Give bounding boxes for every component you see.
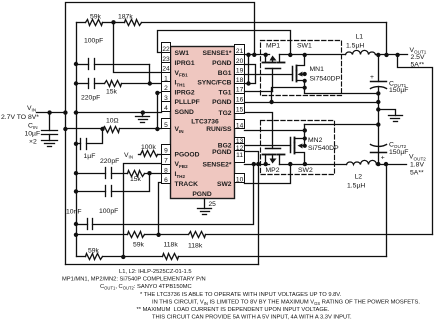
svg-text:1: 1: [164, 75, 168, 82]
resistor R 59k top: [77, 20, 114, 26]
wire VOUT1 feedback up: [386, 23, 388, 55]
svg-text:19: 19: [236, 68, 244, 75]
svg-text:SGND: SGND: [175, 109, 194, 116]
svg-text:PGND: PGND: [212, 99, 231, 106]
capacitor C 220pF ITH2: [74, 168, 112, 179]
svg-text:1.8V: 1.8V: [410, 162, 424, 169]
svg-text:15: 15: [236, 106, 244, 113]
svg-text:15k: 15k: [130, 176, 142, 183]
resistor R 118k track divider row1: [159, 232, 433, 238]
svg-text:10Ω: 10Ω: [106, 118, 119, 125]
wire PGND pin12 drop: [245, 152, 259, 265]
svg-text:IPRG1: IPRG1: [175, 60, 195, 67]
svg-text:100pF: 100pF: [84, 38, 103, 45]
svg-text:PGOOD: PGOOD: [175, 151, 200, 158]
svg-text:21: 21: [236, 48, 244, 55]
svg-text:10µF: 10µF: [25, 130, 41, 137]
svg-text:SYNC/FCB: SYNC/FCB: [197, 80, 231, 87]
resistor R 187k top: [114, 20, 387, 26]
svg-text:PLLLPF: PLLLPF: [175, 99, 200, 106]
wire MN2 source to COUT column: [305, 124, 379, 126]
transistor Q MP1: [263, 55, 285, 92]
wire MN1 source to COUT column: [305, 88, 379, 94]
svg-text:MN2: MN2: [308, 137, 323, 144]
svg-text:59k: 59k: [88, 247, 100, 254]
svg-text:150µF: 150µF: [389, 149, 408, 156]
svg-text:2.7V TO 8V*: 2.7V TO 8V*: [1, 114, 39, 121]
svg-text:L2: L2: [355, 174, 363, 181]
svg-text:25: 25: [209, 201, 217, 208]
text IC left pin names: [175, 50, 200, 188]
svg-text:PGND: PGND: [192, 191, 211, 198]
node ITH2 junction: [147, 171, 151, 175]
svg-text:2: 2: [164, 85, 168, 92]
resistor R 59k track divider row1: [74, 232, 159, 238]
node COUT2 top junction: [376, 122, 380, 126]
transistor Q MP2: [263, 149, 285, 165]
svg-text:SENSE2*: SENSE2*: [203, 161, 232, 168]
node 10nF junction on SW2 row: [252, 162, 256, 166]
node COUT2 bottom junction: [376, 162, 380, 166]
svg-text:59k: 59k: [90, 13, 102, 20]
wire MN1 source to PGND row: [272, 88, 305, 103]
svg-text:×2: ×2: [29, 139, 37, 146]
ground output PGND: [376, 107, 402, 121]
svg-text:220pF: 220pF: [100, 158, 119, 165]
svg-text:SW2: SW2: [298, 167, 313, 174]
svg-text:150µF: 150µF: [389, 87, 408, 94]
wire VOUT2 feedback down: [386, 165, 388, 257]
svg-text:IN THIS CIRCUIT, VIN IS LIMITE: IN THIS CIRCUIT, VIN IS LIMITED TO 8V BY…: [152, 299, 420, 305]
svg-text:11: 11: [236, 152, 243, 159]
svg-text:6: 6: [164, 177, 168, 184]
svg-text:118k: 118k: [164, 241, 179, 248]
node MP1 source junction: [264, 53, 268, 57]
resistor R 15k ITH2: [112, 171, 162, 177]
wire SENSE2 SW2 row left segment: [245, 164, 270, 166]
svg-text:24: 24: [162, 66, 170, 73]
svg-text:220pF: 220pF: [81, 95, 100, 102]
node VFB2 tap row2: [121, 255, 125, 259]
svg-text:TG1: TG1: [218, 89, 231, 96]
node COUT1 top junction: [376, 53, 380, 57]
ground SGND: [136, 110, 150, 122]
wire bottom VIN line: [66, 264, 259, 266]
svg-text:16: 16: [236, 97, 244, 104]
svg-text:5: 5: [164, 122, 168, 129]
svg-text:PGND: PGND: [212, 149, 231, 156]
node divider tap VFB1: [111, 20, 115, 24]
resistor R 100k PGOOD pullup: [139, 151, 162, 157]
svg-text:100k: 100k: [141, 144, 156, 151]
capacitor CIN: [42, 110, 58, 140]
svg-text:SENSE1*: SENSE1*: [203, 50, 232, 57]
wire SW2 row right segment: [280, 164, 347, 166]
node MN1 drain on SW1 row: [303, 53, 307, 57]
capacitor C 100pF IPRG1 row: [74, 59, 150, 70]
wire BG2 to MN2 gate: [245, 145, 291, 147]
node SYNC riser bottom: [246, 81, 250, 85]
node MN1 source PGND junction: [269, 100, 273, 104]
svg-text:2.5V: 2.5V: [411, 54, 425, 61]
inductor L1: [346, 50, 408, 54]
wire VIN lower vertical to bottom: [65, 113, 67, 265]
svg-text:MP1: MP1: [266, 43, 280, 50]
wire SYNC/FCB riser to SENSE1 row: [248, 55, 250, 84]
node MN2 source junction: [303, 128, 307, 132]
wire SW1 pin22 over the top: [158, 31, 291, 55]
capacitor C 100pF ITH2 return: [74, 174, 150, 197]
wire SW2 pin10 connection: [245, 165, 291, 184]
wire VFB2 pin7 to divider tap: [124, 164, 162, 257]
wire RUN/SS MN2 source row: [245, 130, 305, 132]
svg-text:* THE LTC3736 IS ABLE TO OPERA: * THE LTC3736 IS ABLE TO OPERATE WITH IN…: [140, 292, 342, 298]
svg-text:59k: 59k: [133, 241, 145, 248]
capacitor C COUT2: [371, 125, 387, 165]
node VIN pin junction: [155, 127, 159, 131]
svg-text:22: 22: [162, 46, 170, 53]
resistor R 15k ITH1: [95, 81, 162, 87]
text notes block: [62, 269, 420, 321]
wire TG2 to MP2 gate: [245, 113, 273, 149]
svg-text:9: 9: [164, 148, 168, 155]
ground CIN: [42, 141, 58, 147]
svg-text:23: 23: [162, 56, 170, 63]
wire VIN input stub: [37, 112, 67, 114]
transistor Q MN1: [293, 55, 307, 88]
text VIN input labels: [1, 105, 40, 145]
svg-text:MN1: MN1: [310, 66, 325, 73]
resistor R 59k VFB2 divider row2: [77, 254, 124, 260]
IC right pin boxes: [235, 45, 245, 183]
svg-text:12: 12: [236, 145, 244, 152]
svg-text:1.5µH: 1.5µH: [346, 43, 364, 50]
svg-text:5A**: 5A**: [410, 170, 424, 177]
wire BG1 to MN1 gate: [245, 74, 293, 76]
wire TG1 to MP1 gate: [245, 91, 273, 93]
svg-text:1µF: 1µF: [84, 153, 96, 160]
svg-text:+: +: [381, 155, 385, 162]
wire SGND row to pin4: [75, 112, 162, 114]
svg-text:18: 18: [236, 77, 244, 84]
svg-text:MP2: MP2: [266, 167, 280, 174]
text IC right pin names: [197, 50, 232, 188]
svg-text:100pF: 100pF: [99, 208, 118, 215]
svg-text:5A**: 5A**: [411, 62, 425, 69]
svg-text:COUT1, COUT2: SANYO 4TPB150MC: COUT1, COUT2: SANYO 4TPB150MC: [100, 284, 192, 290]
svg-text:20: 20: [236, 58, 244, 65]
node VIN input junction: [63, 110, 67, 114]
svg-text:8: 8: [164, 167, 168, 174]
wire TRACK to divider: [159, 183, 162, 235]
node rail-SGND junction: [74, 110, 78, 114]
node VOUT2 output junction: [384, 162, 388, 166]
svg-text:Si7540DP: Si7540DP: [308, 145, 339, 152]
capacitor C 10nF: [74, 165, 254, 230]
svg-text:1.5µH: 1.5µH: [347, 183, 365, 190]
node SW2 pin10 junction: [288, 162, 292, 166]
wire VFB1 tap to pin24: [114, 23, 162, 73]
svg-text:118k: 118k: [188, 242, 203, 249]
resistor R 118k VFB2 divider row2: [124, 254, 387, 260]
node ITH1 junction: [148, 81, 152, 85]
transistor Q MN2: [291, 125, 307, 165]
node VIN drop on SENSE1 row: [252, 53, 256, 57]
node SW1 join: [288, 53, 292, 57]
wire SGND rail: [76, 23, 78, 257]
wire VIN top feed line: [66, 3, 255, 113]
dashed box MOSFET pair 1: [261, 41, 342, 96]
node VOUT1 output junction: [395, 53, 399, 57]
svg-text:+: +: [370, 74, 374, 81]
wire IPRG2 tie to VIN pin row: [158, 93, 162, 129]
svg-text:3: 3: [164, 95, 168, 102]
svg-text:TRACK: TRACK: [175, 181, 199, 188]
resistor R 10 ohm VIN filter: [66, 127, 162, 133]
svg-text:PGND: PGND: [212, 60, 231, 67]
node PGND drop junction: [256, 162, 260, 166]
svg-text:THIS CIRCUIT CAN PROVIDE 5A WI: THIS CIRCUIT CAN PROVIDE 5A WITH A 5V IN…: [152, 315, 352, 321]
wire SENSE1 row right segment with SW1: [280, 54, 346, 56]
svg-text:Si7540DP: Si7540DP: [310, 76, 341, 83]
svg-text:14: 14: [236, 123, 244, 130]
svg-text:187k: 187k: [118, 14, 133, 21]
svg-text:BG1: BG1: [218, 70, 232, 77]
svg-text:10nF: 10nF: [66, 209, 82, 216]
svg-text:RUN/SS: RUN/SS: [206, 126, 232, 133]
svg-text:LTC3736: LTC3736: [191, 119, 219, 126]
node MN2 drain junction: [303, 162, 307, 166]
capacitor C 1uF VIN filter: [74, 127, 105, 150]
svg-text:7: 7: [164, 158, 168, 165]
IC left pin boxes: [162, 43, 171, 184]
svg-text:IPRG2: IPRG2: [175, 89, 195, 96]
IC ground pin25: [198, 199, 212, 215]
node VIN 10ohm row junction: [63, 127, 67, 131]
dashed box MOSFET pair 2: [261, 121, 335, 175]
wire VOUT1 to bottom row1 feedback: [398, 55, 433, 235]
svg-text:L1: L1: [356, 34, 364, 41]
capacitor C 220pF ITH1: [74, 79, 95, 89]
capacitor C COUT1: [371, 55, 387, 125]
svg-text:TG2: TG2: [218, 110, 231, 117]
node SYNC riser top: [246, 53, 250, 57]
svg-text:17: 17: [236, 87, 244, 94]
svg-text:** MAXIMUM LOAD CURRENT IS DE: ** MAXIMUM LOAD CURRENT IS DEPENDENT UPO…: [137, 307, 330, 313]
wire PGND row upper: [245, 102, 379, 104]
text IC right pin numbers: [236, 48, 244, 183]
svg-text:L1, L2: IHLP-2525CZ-01-1.5: L1, L2: IHLP-2525CZ-01-1.5: [119, 269, 192, 275]
svg-text:MP1/MN1, MP2/MN2: Si7540P COMP: MP1/MN1, MP2/MN2: Si7540P COMPLEMENTARY …: [62, 277, 206, 283]
svg-text:15k: 15k: [106, 88, 118, 95]
svg-text:10: 10: [236, 176, 244, 183]
node MP2 source junction: [264, 162, 268, 166]
wire PGND pin20 to SYNC pin18: [245, 65, 256, 84]
svg-text:SW1: SW1: [297, 43, 312, 50]
svg-text:SW2: SW2: [217, 181, 232, 188]
inductor L2: [347, 160, 407, 164]
node IPRG2 junction: [155, 91, 159, 95]
text IC left pin numbers: [162, 46, 170, 184]
node TRACK tap row1: [156, 233, 160, 237]
svg-text:SW1: SW1: [175, 50, 190, 57]
svg-text:4: 4: [164, 105, 168, 112]
wire SENSE1 row left segment: [245, 54, 270, 56]
wire 100pF drop to ITH1 row: [149, 65, 151, 84]
IC LTC3736 body: [171, 47, 235, 199]
node VOUT1 feedback junction: [384, 53, 388, 57]
